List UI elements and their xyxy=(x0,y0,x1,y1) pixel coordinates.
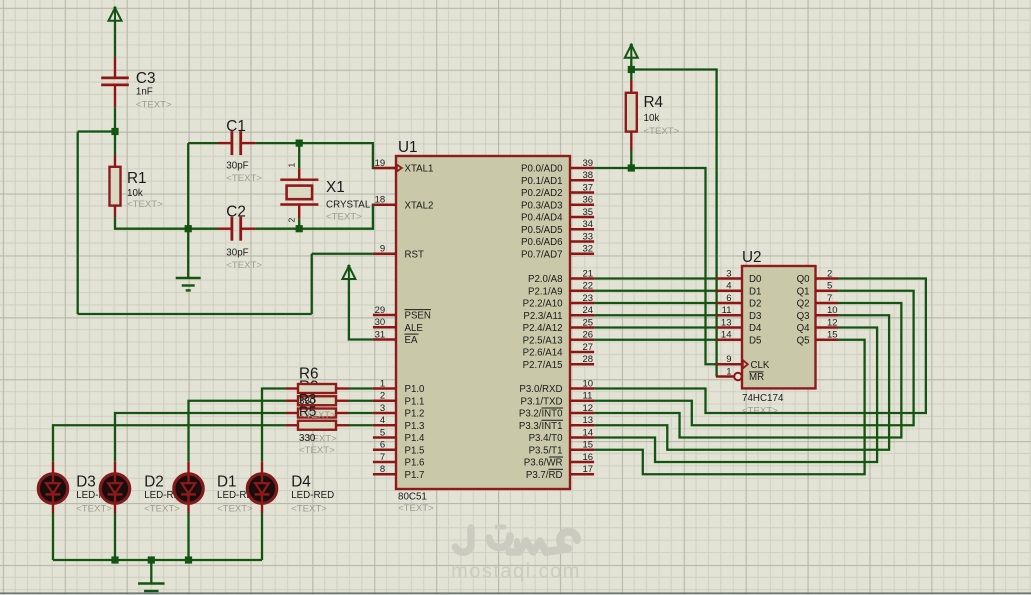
svg-text:9: 9 xyxy=(380,244,385,255)
svg-text:10: 10 xyxy=(583,378,594,389)
svg-text:P3.4/T0: P3.4/T0 xyxy=(529,433,564,444)
svg-text:13: 13 xyxy=(583,415,594,426)
svg-text:D1: D1 xyxy=(217,474,237,491)
U1 pin 11 P3.1/TXD xyxy=(521,391,595,408)
node junction bus D2 xyxy=(111,556,118,563)
wire C1 right to XTAL1 xyxy=(255,143,396,168)
U2 pin 7 Q2 xyxy=(797,293,838,310)
U2 pin 4 D1 xyxy=(716,281,761,298)
wire P2.2 to D2 xyxy=(594,302,716,304)
svg-text:P2.1/A9: P2.1/A9 xyxy=(528,286,562,297)
LED D1 xyxy=(174,462,203,513)
wire C1 left xyxy=(188,142,218,144)
U2 pin 15 Q5 xyxy=(797,330,838,347)
svg-text:P1.2: P1.2 xyxy=(405,409,425,420)
svg-text:2: 2 xyxy=(380,391,385,402)
svg-text:15: 15 xyxy=(827,330,838,341)
capacitor C3 xyxy=(101,57,129,107)
wire RST riser up xyxy=(311,254,313,314)
svg-text:29: 29 xyxy=(375,305,386,316)
svg-text:P3.2/INT0: P3.2/INT0 xyxy=(519,409,563,420)
svg-text:25: 25 xyxy=(583,317,594,328)
U2 pin 2 Q0 xyxy=(797,268,838,285)
svg-text:P1.0: P1.0 xyxy=(405,384,426,395)
node junction VCC/R4/MR xyxy=(628,66,635,73)
power arrow EA xyxy=(342,266,355,279)
svg-text:19: 19 xyxy=(375,158,386,169)
svg-text:CRYSTAL: CRYSTAL xyxy=(326,200,371,211)
U2 pin 11 D3 xyxy=(716,305,761,322)
svg-text:10k: 10k xyxy=(644,113,660,124)
U1 pin 28 P2.7/A15 xyxy=(523,354,594,371)
wire R6 element 2 to U1 P1.1 xyxy=(349,400,373,402)
svg-text:D2: D2 xyxy=(144,474,164,491)
wire bus to ground xyxy=(150,560,152,583)
U1 pin 33 P0.6/AD6 xyxy=(521,231,594,248)
svg-text:21: 21 xyxy=(583,268,594,279)
LED D3 xyxy=(38,462,67,513)
wire P1.2 to LED D2 column xyxy=(115,413,286,462)
svg-text:8: 8 xyxy=(380,464,385,475)
U2 pin 10 Q3 xyxy=(797,305,838,322)
svg-text:PSEN: PSEN xyxy=(405,311,431,322)
U2 pin 14 D5 xyxy=(716,330,761,347)
svg-text:11: 11 xyxy=(583,391,593,402)
wire LED cathode bus xyxy=(53,559,262,561)
svg-text:P1.4: P1.4 xyxy=(405,433,426,444)
U1 pin 31 EA xyxy=(373,329,419,346)
svg-text:<TEXT>: <TEXT> xyxy=(144,504,180,515)
wire P2.5 to D5 xyxy=(594,339,716,341)
wire junction left xyxy=(78,130,115,132)
svg-text:39: 39 xyxy=(583,158,594,169)
wire R6 element 1 to U1 P1.0 xyxy=(349,387,373,389)
svg-text:P0.4/AD4: P0.4/AD4 xyxy=(521,213,563,224)
svg-text:36: 36 xyxy=(583,195,594,206)
U1 pin 3 P1.2 xyxy=(373,403,425,420)
svg-text:4: 4 xyxy=(380,415,385,426)
svg-text:P0.1/AD1: P0.1/AD1 xyxy=(521,176,562,187)
svg-text:R1: R1 xyxy=(127,170,147,187)
svg-text:24: 24 xyxy=(583,305,594,316)
svg-text:7: 7 xyxy=(380,452,385,463)
svg-text:<TEXT>: <TEXT> xyxy=(291,504,327,515)
svg-text:1: 1 xyxy=(287,163,297,168)
U1 pin 32 P0.7/AD7 xyxy=(521,244,594,261)
U1 pin 26 P2.5/A13 xyxy=(523,330,594,347)
wire Q0 to P3.0 xyxy=(594,279,926,414)
watermark mostaql logo xyxy=(456,527,578,552)
svg-text:14: 14 xyxy=(721,330,732,341)
U2 pin 13 D4 xyxy=(716,317,762,334)
wire P2.3 to D3 xyxy=(594,314,716,316)
wire arrow to junction xyxy=(630,58,632,70)
U1 pin 2 P1.1 xyxy=(373,391,425,408)
U1 pin 14 P3.4/T0 xyxy=(529,427,595,444)
svg-text:28: 28 xyxy=(583,354,594,365)
svg-text:330: 330 xyxy=(299,433,316,444)
svg-text:D5: D5 xyxy=(749,335,761,346)
U1 pin 35 P0.4/AD4 xyxy=(521,207,594,224)
svg-text:D2: D2 xyxy=(749,299,761,310)
wire P1.0 to LED D4 column xyxy=(262,389,286,462)
U1 pin 24 P2.3/A11 xyxy=(523,305,594,322)
U1 pin 30 ALE xyxy=(373,317,423,334)
U1 pin 37 P0.2/AD2 xyxy=(521,182,594,199)
svg-text:16: 16 xyxy=(583,452,594,463)
wire C3 to node R1 top xyxy=(114,107,116,131)
wire bottom horizontal to RST riser xyxy=(78,313,312,315)
svg-text:22: 22 xyxy=(583,281,594,292)
svg-text:D1: D1 xyxy=(749,286,761,297)
U1 pin 13 P3.3/INT1 xyxy=(519,415,594,432)
svg-text:12: 12 xyxy=(827,317,838,328)
IC U2 74HC174 body xyxy=(742,266,816,388)
svg-text:D3: D3 xyxy=(749,311,761,322)
wire to RST pin xyxy=(312,253,373,255)
svg-text:13: 13 xyxy=(721,317,732,328)
wire R6 element 3 to U1 P1.2 xyxy=(349,412,373,414)
svg-text:ALE: ALE xyxy=(405,323,424,334)
wire LED D2 cathode down xyxy=(114,513,116,560)
svg-text:D3: D3 xyxy=(76,474,96,491)
svg-text:P2.7/A15: P2.7/A15 xyxy=(523,360,563,371)
svg-text:XTAL2: XTAL2 xyxy=(405,200,434,211)
svg-text:12: 12 xyxy=(583,403,594,414)
U1 pin 27 P2.6/A14 xyxy=(523,342,594,359)
svg-text:11: 11 xyxy=(722,305,732,316)
U1 pin 36 P0.3/AD3 xyxy=(521,195,594,212)
capacitor C1 xyxy=(218,131,255,155)
svg-text:EA: EA xyxy=(405,335,418,346)
svg-text:23: 23 xyxy=(583,293,594,304)
resistor R6 element 2 row P1.1 xyxy=(286,396,349,405)
U1 pin 22 P2.1/A9 xyxy=(528,281,594,298)
svg-text:<TEXT>: <TEXT> xyxy=(226,173,262,184)
svg-text:<TEXT>: <TEXT> xyxy=(742,406,778,417)
svg-text:<TEXT>: <TEXT> xyxy=(299,445,335,456)
resistor R1 xyxy=(110,132,121,218)
svg-text:38: 38 xyxy=(583,170,594,181)
svg-text:<TEXT>: <TEXT> xyxy=(644,126,680,137)
svg-text:Q0: Q0 xyxy=(797,274,811,285)
wire Q2 to P3.2 xyxy=(594,303,901,438)
node junction C2/X1 bottom xyxy=(296,225,303,232)
svg-text:Q1: Q1 xyxy=(797,286,810,297)
svg-text:R4: R4 xyxy=(644,94,664,111)
U1 pin 15 P3.5/T1 xyxy=(529,440,595,457)
svg-text:P0.3/AD3: P0.3/AD3 xyxy=(521,200,562,211)
wire C1/C2 left vertical xyxy=(187,143,189,278)
svg-text:<TEXT>: <TEXT> xyxy=(398,503,434,514)
svg-text:P2.3/A11: P2.3/A11 xyxy=(523,311,562,322)
U1 pin 7 P1.6 xyxy=(373,452,425,469)
resistor R4 xyxy=(626,70,637,169)
svg-text:1nF: 1nF xyxy=(136,87,153,98)
LED D2 xyxy=(100,462,129,513)
svg-text:RST: RST xyxy=(405,249,424,260)
U1 pin 1 P1.0 xyxy=(373,378,425,395)
wire LED D4 cathode down xyxy=(261,513,263,560)
U1 pin 29 PSEN xyxy=(373,305,431,322)
svg-text:P0.2/AD2: P0.2/AD2 xyxy=(521,188,562,199)
U2 pin 3 D0 xyxy=(716,268,762,285)
wire VCC arrow to C3 xyxy=(114,21,116,58)
U2 pin 6 D2 xyxy=(716,293,761,310)
svg-text:Q5: Q5 xyxy=(797,335,810,346)
svg-text:D4: D4 xyxy=(291,474,311,491)
svg-text:37: 37 xyxy=(583,182,594,193)
svg-text:P1.3: P1.3 xyxy=(405,421,425,432)
svg-text:<TEXT>: <TEXT> xyxy=(217,504,253,515)
svg-text:P2.2/A10: P2.2/A10 xyxy=(523,299,563,310)
node junction R4/P0.0 xyxy=(628,164,635,171)
svg-text:9: 9 xyxy=(726,354,731,365)
svg-text:2: 2 xyxy=(827,268,832,279)
svg-text:5: 5 xyxy=(827,281,832,292)
svg-text:<TEXT>: <TEXT> xyxy=(76,504,112,515)
LED D4 xyxy=(247,462,276,513)
svg-text:14: 14 xyxy=(583,427,594,438)
node junction C1/X1 top xyxy=(296,140,303,147)
svg-text:10k: 10k xyxy=(127,188,143,199)
svg-text:P0.6/AD6: P0.6/AD6 xyxy=(521,237,562,248)
svg-text:U2: U2 xyxy=(742,249,762,266)
svg-text:4: 4 xyxy=(726,281,731,292)
wire P0.0 row to CLK column xyxy=(594,168,716,364)
svg-text:Q3: Q3 xyxy=(797,311,810,322)
power arrow VCC R4 xyxy=(625,45,638,58)
svg-text:<TEXT>: <TEXT> xyxy=(326,212,362,223)
U1 pin 16 P3.6/WR xyxy=(524,452,594,469)
wire LED D1 cathode down xyxy=(187,513,189,560)
svg-text:35: 35 xyxy=(583,207,594,218)
wire P1.3 to LED D3 column xyxy=(53,425,286,462)
svg-text:XTAL1: XTAL1 xyxy=(405,164,434,175)
wire Q1 to P3.1 xyxy=(594,291,914,426)
svg-text:18: 18 xyxy=(375,195,386,206)
wire Q3 to P3.3 xyxy=(594,315,889,450)
svg-text:1: 1 xyxy=(380,378,385,389)
U2 pin 5 Q1 xyxy=(797,281,838,298)
U1 pin 18 XTAL2 xyxy=(373,195,434,212)
U1 pin 6 P1.5 xyxy=(373,440,425,457)
svg-text:<TEXT>: <TEXT> xyxy=(136,100,172,111)
svg-text:C1: C1 xyxy=(226,118,246,135)
wire C2 right to XTAL2 xyxy=(255,205,396,229)
svg-text:P3.0/RXD: P3.0/RXD xyxy=(519,384,562,395)
U1 pin 25 P2.4/A12 xyxy=(523,317,594,334)
svg-text:P1.5: P1.5 xyxy=(405,445,425,456)
svg-text:30: 30 xyxy=(375,317,386,328)
ground symbol upper xyxy=(176,277,201,279)
svg-text:31: 31 xyxy=(375,329,386,340)
svg-text:7: 7 xyxy=(827,293,832,304)
U1 pin 21 P2.0/A8 xyxy=(528,268,594,285)
svg-text:P2.6/A14: P2.6/A14 xyxy=(523,348,563,359)
svg-text:C3: C3 xyxy=(136,70,156,87)
U1 pin 23 P2.2/A10 xyxy=(523,293,594,310)
wire Q4 to P3.4 xyxy=(594,328,877,463)
svg-text:6: 6 xyxy=(726,293,731,304)
svg-text:P0.0/AD0: P0.0/AD0 xyxy=(521,164,563,175)
svg-text:R6: R6 xyxy=(299,366,319,383)
IC U1 80C51 body xyxy=(396,156,570,489)
svg-text:X1: X1 xyxy=(326,179,345,196)
svg-text:P3.7/RD: P3.7/RD xyxy=(526,470,563,481)
svg-text:CLK: CLK xyxy=(751,360,770,371)
node junction C1/C2/GND xyxy=(185,225,192,232)
svg-text:Q4: Q4 xyxy=(797,323,811,334)
svg-text:<TEXT>: <TEXT> xyxy=(127,199,163,210)
U1 pin 9 RST xyxy=(373,244,424,261)
svg-text:MR: MR xyxy=(749,372,764,383)
wire Q5 to P3.5 xyxy=(594,340,865,475)
svg-text:P2.5/A13: P2.5/A13 xyxy=(523,335,563,346)
svg-text:P3.3/INT1: P3.3/INT1 xyxy=(519,421,563,432)
svg-text:P2.4/A12: P2.4/A12 xyxy=(523,323,563,334)
resistor R6 element 4 row P1.3 xyxy=(286,421,349,430)
svg-text:P1.1: P1.1 xyxy=(405,396,425,407)
wire left vertical down xyxy=(77,132,79,315)
XTAL1 clock chevron xyxy=(397,165,402,172)
svg-text:P3.5/T1: P3.5/T1 xyxy=(529,445,563,456)
svg-text:P3.6/WR: P3.6/WR xyxy=(524,458,563,469)
ground symbol bottom xyxy=(138,582,165,584)
svg-text:3: 3 xyxy=(726,268,731,279)
U1 pin 5 P1.4 xyxy=(373,427,425,444)
resistor R6 element 1 row P1.0 xyxy=(286,384,349,393)
svg-text:34: 34 xyxy=(583,219,594,230)
wire R6 element 4 to U1 P1.3 xyxy=(349,424,373,426)
svg-text:6: 6 xyxy=(380,440,385,451)
svg-text:74HC174: 74HC174 xyxy=(742,393,784,404)
svg-text:30pF: 30pF xyxy=(226,248,248,259)
wire EA arrow to EA pin xyxy=(349,279,373,340)
svg-text:P0.5/AD5: P0.5/AD5 xyxy=(521,225,562,236)
svg-text:mostaql.com: mostaql.com xyxy=(451,561,581,583)
bottom window edge xyxy=(0,592,1031,594)
U1 pin 4 P1.3 xyxy=(373,415,425,432)
svg-text:P1.6: P1.6 xyxy=(405,458,425,469)
wire R1 bottom to ground node xyxy=(115,217,188,228)
svg-text:15: 15 xyxy=(583,440,594,451)
U2 pin 12 Q4 xyxy=(797,317,838,334)
wire LED D3 cathode down xyxy=(52,513,54,560)
svg-text:30pF: 30pF xyxy=(226,161,248,172)
capacitor C2 xyxy=(218,217,255,241)
svg-text:27: 27 xyxy=(583,342,594,353)
svg-text:P0.7/AD7: P0.7/AD7 xyxy=(521,249,562,260)
svg-text:33: 33 xyxy=(583,231,594,242)
power arrow VCC top-left xyxy=(109,8,122,21)
svg-text:32: 32 xyxy=(583,244,594,255)
resistor R6 element 3 row P1.2 xyxy=(286,409,349,418)
svg-text:C2: C2 xyxy=(226,204,246,221)
svg-text:26: 26 xyxy=(583,330,594,341)
svg-text:3: 3 xyxy=(380,403,385,414)
wire P2.0 to D0 xyxy=(594,277,716,279)
svg-text:Q2: Q2 xyxy=(797,299,810,310)
svg-text:P3.1/TXD: P3.1/TXD xyxy=(521,396,563,407)
U1 pin 39 P0.0/AD0 xyxy=(521,158,594,175)
wire P1.1 to LED D1 column xyxy=(189,401,287,462)
U2 pin 9 CLK xyxy=(716,354,770,371)
svg-text:80C51: 80C51 xyxy=(398,492,427,503)
svg-text:<TEXT>: <TEXT> xyxy=(226,260,262,271)
wire P2.1 to D1 xyxy=(594,290,716,292)
U1 pin 8 P1.7 xyxy=(373,464,425,481)
U1 pin 12 P3.2/INT0 xyxy=(519,403,594,420)
svg-text:LED-RED: LED-RED xyxy=(291,490,334,501)
svg-text:17: 17 xyxy=(583,464,594,475)
svg-text:R5: R5 xyxy=(299,404,316,419)
svg-text:U1: U1 xyxy=(398,139,418,156)
svg-text:D0: D0 xyxy=(749,274,762,285)
U1 pin 17 P3.7/RD xyxy=(526,464,594,481)
U1 pin 10 P3.0/RXD xyxy=(519,378,594,395)
crystal X1 xyxy=(280,143,318,229)
wire VCC to MR column xyxy=(631,70,716,377)
U2 pin 1 MR xyxy=(716,366,764,383)
svg-text:10: 10 xyxy=(827,305,838,316)
svg-text:P2.0/A8: P2.0/A8 xyxy=(528,274,562,285)
svg-text:D4: D4 xyxy=(749,323,762,334)
wire P2.4 to D4 xyxy=(594,326,716,328)
node junction bus D1 xyxy=(185,556,192,563)
U1 pin 38 P0.1/AD1 xyxy=(521,170,594,187)
node junction C3/R1/RST-branch xyxy=(111,128,118,135)
svg-text:2: 2 xyxy=(287,218,297,223)
svg-text:1: 1 xyxy=(726,366,731,377)
U1 pin 34 P0.5/AD5 xyxy=(521,219,594,236)
node junction bus ground tap xyxy=(148,556,155,563)
U1 pin 19 XTAL1 xyxy=(373,158,434,175)
svg-text:P1.7: P1.7 xyxy=(405,470,425,481)
svg-text:5: 5 xyxy=(380,427,385,438)
wire C2 left to junction xyxy=(188,228,218,230)
